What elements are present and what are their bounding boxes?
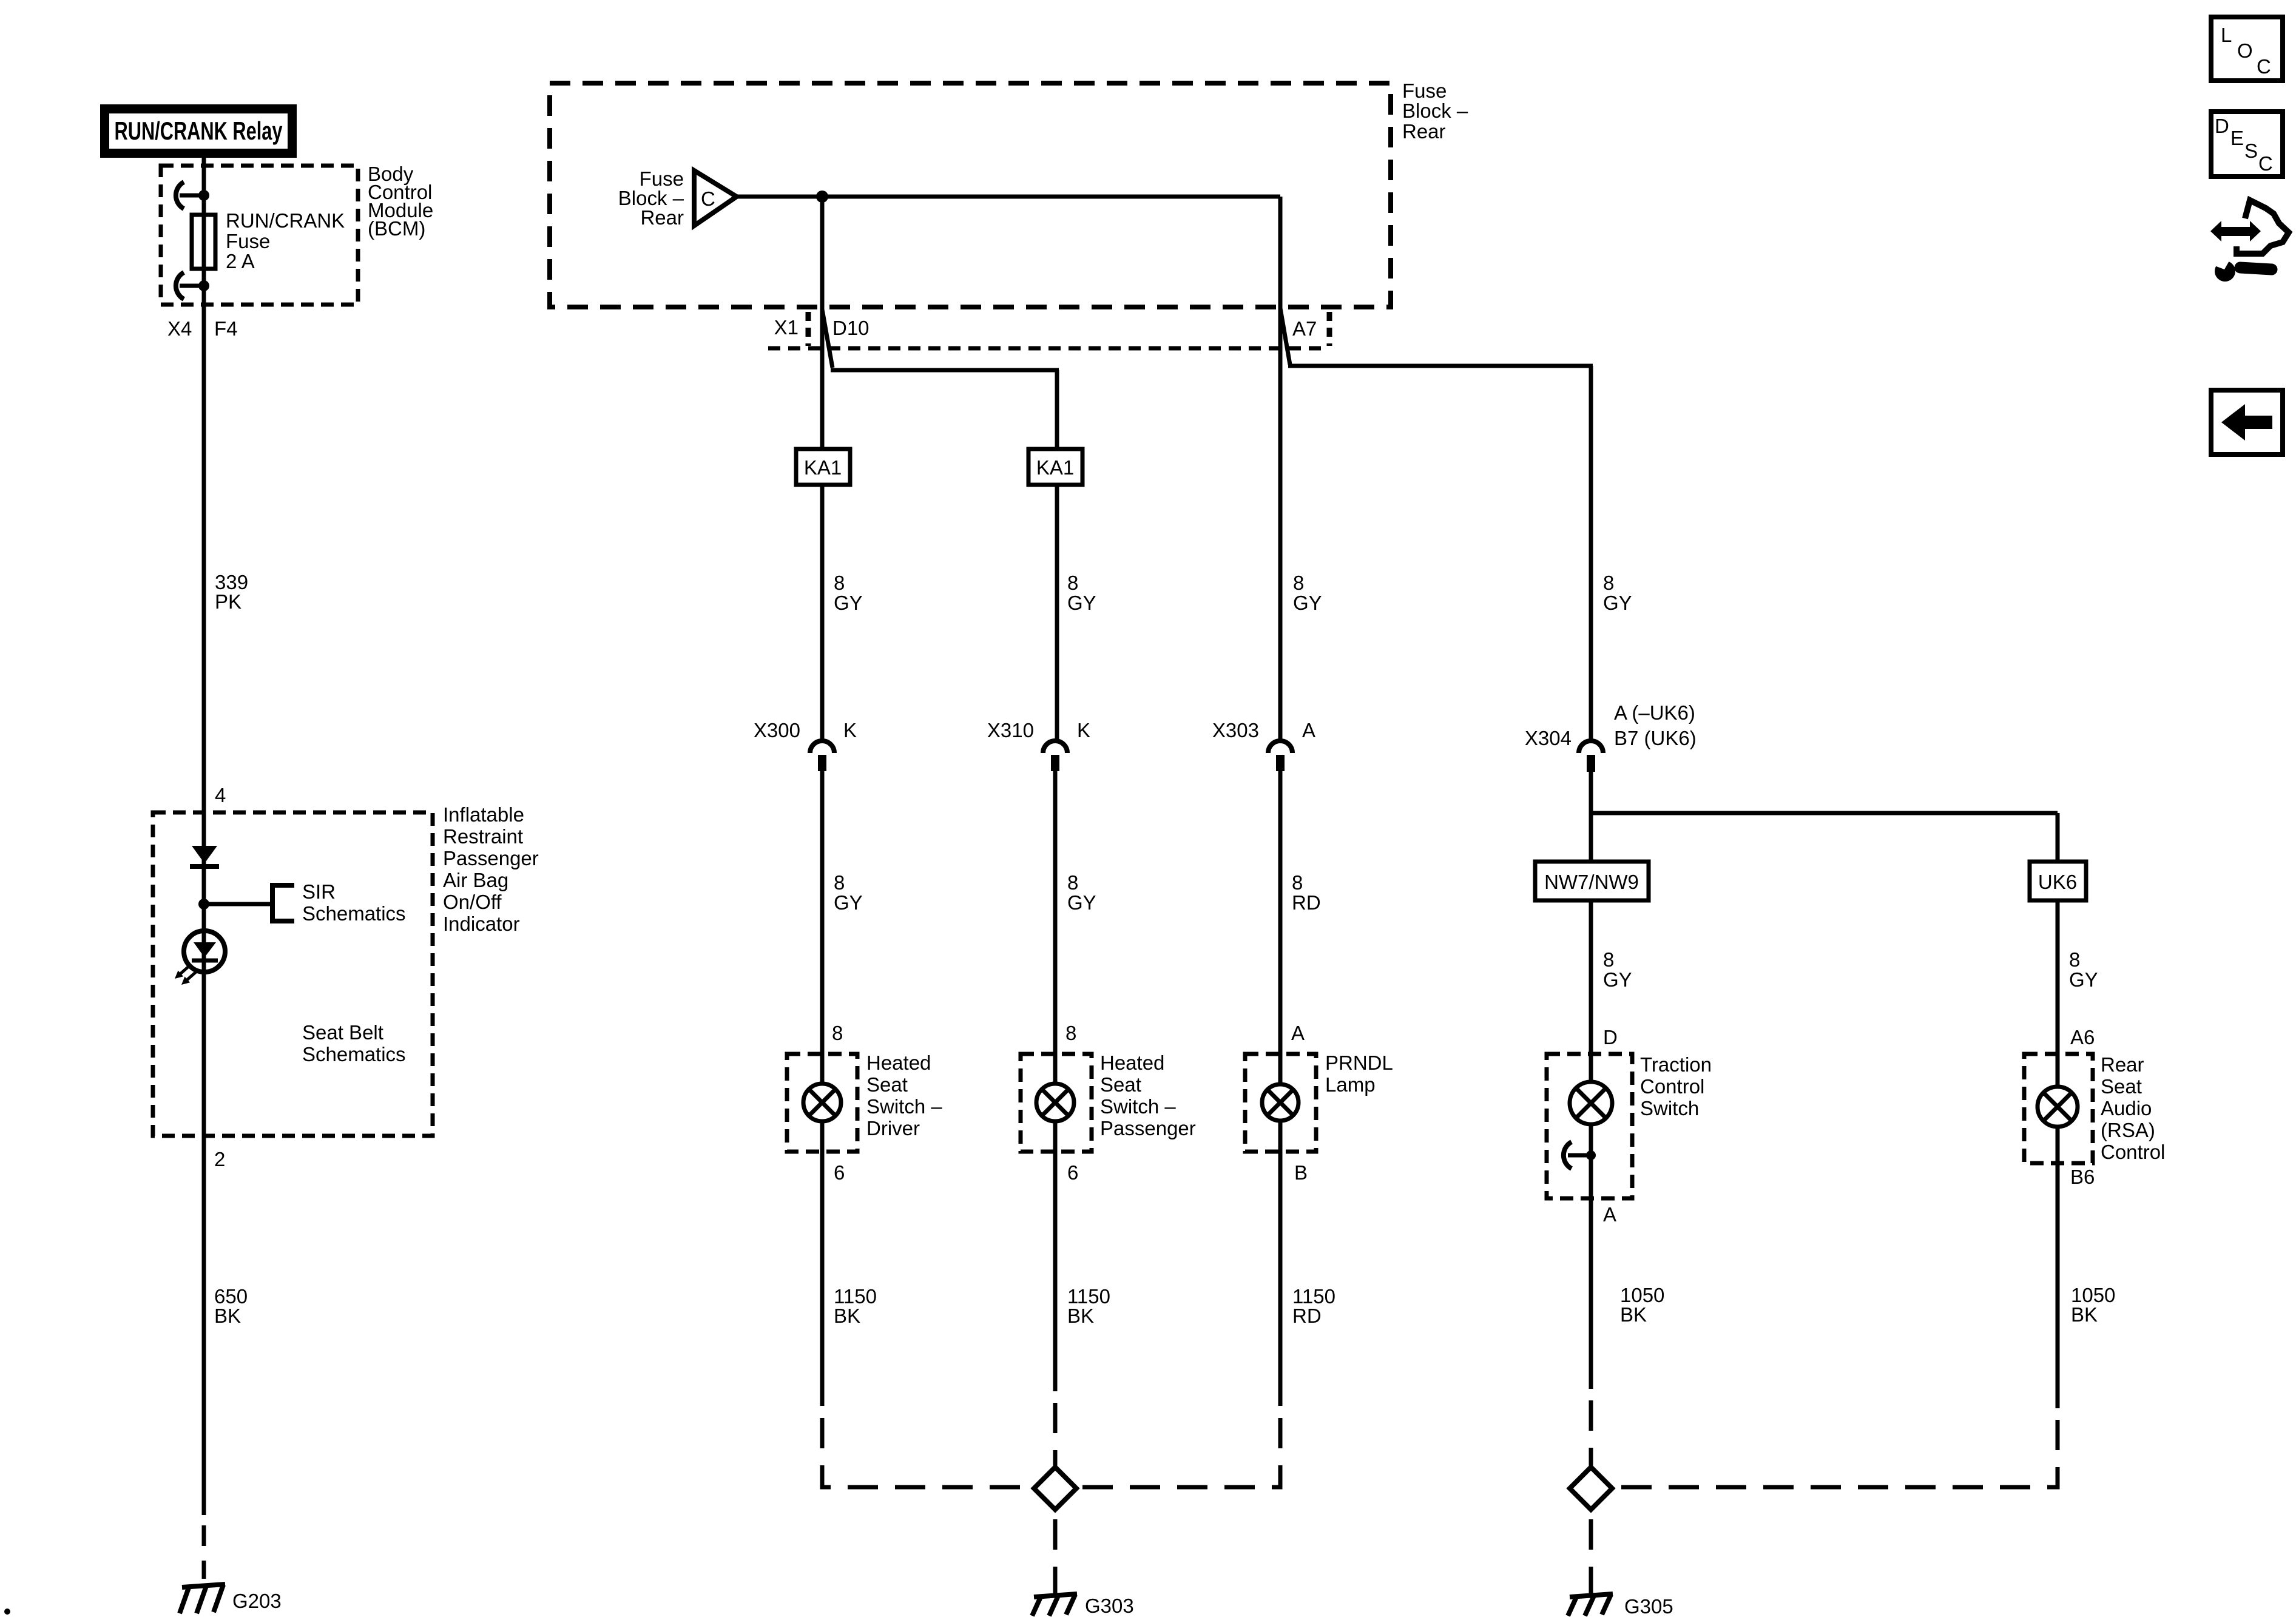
svg-text:PRNDL: PRNDL bbox=[1325, 1052, 1393, 1074]
svg-text:BK: BK bbox=[1620, 1303, 1647, 1326]
wire branch5 down to UK6 box bbox=[2056, 813, 2060, 862]
wire label 1150 RD branch3 bbox=[1292, 1285, 1335, 1327]
svg-text:X304: X304 bbox=[1525, 727, 1572, 749]
wire label 339 PK bbox=[215, 571, 248, 613]
svg-text:Seat: Seat bbox=[2101, 1075, 2142, 1098]
wire label 650 BK bbox=[214, 1285, 248, 1327]
svg-text:GY: GY bbox=[1067, 592, 1096, 614]
block UK6 bbox=[2030, 862, 2086, 900]
module SIR dashed box Inflatable Restraint bbox=[153, 812, 433, 1136]
connector bracket SIR Schematics bbox=[272, 883, 294, 923]
svg-text:On/Off: On/Off bbox=[443, 891, 502, 913]
svg-text:X4: X4 bbox=[167, 317, 192, 340]
svg-text:PK: PK bbox=[215, 590, 241, 613]
wire label 8 GY branch1 lower bbox=[834, 871, 863, 914]
svg-text:A: A bbox=[1291, 1022, 1305, 1044]
svg-text:Switch: Switch bbox=[1640, 1097, 1699, 1119]
lamp DS5 traction bbox=[1570, 1082, 1612, 1124]
svg-text:Traction: Traction bbox=[1640, 1053, 1712, 1076]
connector X310 K bbox=[987, 719, 1090, 771]
icon back arrow box bbox=[2211, 390, 2283, 454]
wire branch3 lamp to splice bbox=[1278, 1121, 1283, 1406]
svg-text:Rear: Rear bbox=[2101, 1053, 2144, 1076]
connector strip X1 row bbox=[768, 312, 1329, 348]
wire label 1150 BK branch1 bbox=[834, 1285, 877, 1327]
wire A7 branch horizontal bbox=[1288, 364, 1593, 368]
svg-text:Restraint: Restraint bbox=[443, 825, 523, 848]
node junction dot lower bbox=[198, 280, 209, 291]
wire label 8 GY branch4 lower bbox=[1603, 948, 1632, 991]
wire branch1 KA1 to connector bbox=[820, 485, 825, 740]
icon connector wrench bbox=[2210, 200, 2289, 282]
switch contact S1 upper BCM contact bbox=[176, 182, 204, 209]
diode D1 bbox=[190, 846, 219, 866]
svg-text:Rear: Rear bbox=[640, 206, 684, 229]
block NW7/NW9 bbox=[1535, 862, 1649, 900]
svg-text:G305: G305 bbox=[1624, 1595, 1673, 1617]
svg-text:6: 6 bbox=[834, 1161, 845, 1184]
label Heated Seat Switch Driver bbox=[866, 1052, 942, 1139]
svg-text:Rear: Rear bbox=[1402, 120, 1446, 143]
wire branch5 lamp down bbox=[2056, 1127, 2060, 1408]
wire branch5 UK6 box to lamp bbox=[2056, 900, 2060, 1087]
svg-text:O: O bbox=[2237, 39, 2253, 62]
svg-text:8: 8 bbox=[834, 871, 845, 894]
wire branch3 connector to lamp bbox=[1278, 771, 1283, 1084]
svg-text:GY: GY bbox=[1603, 968, 1632, 991]
ground G303 bbox=[1032, 1585, 1077, 1616]
svg-text:Fuse: Fuse bbox=[226, 230, 270, 252]
svg-text:X310: X310 bbox=[987, 719, 1034, 741]
wire dashed diamond to G305 bbox=[1589, 1519, 1593, 1585]
svg-text:GY: GY bbox=[1067, 891, 1096, 914]
wire branch4 X304 to NW box bbox=[1589, 771, 1593, 862]
wire SIR branch bbox=[204, 902, 272, 906]
svg-text:C: C bbox=[701, 187, 715, 210]
svg-text:RUN/CRANK: RUN/CRANK bbox=[226, 209, 345, 232]
wire dashed diamond to G303 bbox=[1053, 1519, 1058, 1585]
wire label 8 GY branch2 lower bbox=[1067, 871, 1096, 914]
svg-text:GY: GY bbox=[834, 891, 863, 914]
svg-text:8: 8 bbox=[1603, 948, 1614, 971]
svg-text:Block –: Block – bbox=[1402, 100, 1468, 122]
wire dashed branch3 to splice bbox=[1078, 1418, 1280, 1487]
svg-text:Heated: Heated bbox=[866, 1052, 931, 1074]
label Inflatable Restraint Passenger Air Bag On/Off Indicator bbox=[443, 803, 539, 935]
svg-text:Switch –: Switch – bbox=[1100, 1095, 1176, 1118]
svg-text:Audio: Audio bbox=[2101, 1097, 2152, 1119]
wire D10 branch horizontal bbox=[831, 368, 1059, 373]
wire branch2 upper bbox=[1055, 370, 1059, 449]
wire dashed branch2 to splice bbox=[1053, 1403, 1058, 1467]
ground G203 bbox=[180, 1584, 225, 1613]
switch contact S2 lower BCM contact bbox=[176, 272, 204, 299]
svg-text:Schematics: Schematics bbox=[302, 1043, 406, 1065]
wire branch4 inside box bbox=[1589, 1124, 1593, 1389]
wire dashed branch5 to splice bbox=[1615, 1420, 2058, 1487]
svg-text:Control: Control bbox=[1640, 1075, 1704, 1098]
svg-text:A (–UK6): A (–UK6) bbox=[1614, 701, 1695, 724]
wire UK6 branch horizontal bbox=[1591, 811, 2058, 815]
label Rear Seat Audio (RSA) Control bbox=[2101, 1053, 2165, 1163]
block KA1 first bbox=[796, 449, 850, 485]
wire branch2 KA1 to connector bbox=[1055, 485, 1059, 740]
wire branch4 upper bbox=[1589, 366, 1593, 740]
svg-text:L: L bbox=[2221, 24, 2232, 46]
svg-text:8: 8 bbox=[1065, 1022, 1076, 1044]
svg-text:Lamp: Lamp bbox=[1325, 1073, 1376, 1096]
svg-text:8: 8 bbox=[1603, 572, 1614, 594]
wire label 8 GY branch1 bbox=[834, 572, 863, 614]
label RUN/CRANK Fuse 2 A bbox=[226, 209, 345, 272]
wire branch3 upper bbox=[1278, 197, 1283, 740]
wire label 8 GY branch3 bbox=[1293, 572, 1322, 614]
svg-text:X300: X300 bbox=[754, 719, 800, 741]
svg-text:Seat: Seat bbox=[866, 1073, 908, 1096]
svg-text:A: A bbox=[1603, 1203, 1616, 1226]
lamp box rear seat audio bbox=[2024, 1054, 2093, 1163]
svg-text:Driver: Driver bbox=[866, 1117, 920, 1139]
wire label 1050 BK branch5 bbox=[2071, 1284, 2115, 1326]
lamp DS2 driver bbox=[803, 1084, 841, 1121]
svg-text:D10: D10 bbox=[832, 317, 869, 339]
svg-text:RD: RD bbox=[1292, 891, 1321, 914]
wire D10 jog slant bbox=[822, 309, 832, 368]
svg-text:8: 8 bbox=[1293, 572, 1304, 594]
svg-text:G303: G303 bbox=[1085, 1595, 1134, 1617]
lamp DS3 passenger bbox=[1036, 1084, 1074, 1121]
svg-text:BK: BK bbox=[834, 1305, 860, 1327]
lamp DS4 PRNDL bbox=[1262, 1084, 1298, 1121]
splice S303 diamond bbox=[1034, 1467, 1076, 1510]
wire C feed horizontal bbox=[738, 195, 1280, 199]
svg-text:D: D bbox=[1603, 1026, 1618, 1048]
wire label 8 GY branch2 bbox=[1067, 572, 1096, 614]
node SIR branch junction dot bbox=[198, 899, 209, 910]
wire label 8 GY branch4 bbox=[1603, 572, 1632, 614]
svg-text:8: 8 bbox=[834, 572, 845, 594]
svg-text:GY: GY bbox=[834, 592, 863, 614]
wire label 8 RD branch3 lower bbox=[1292, 871, 1321, 914]
wire A7 jog slant bbox=[1280, 308, 1290, 365]
svg-text:BK: BK bbox=[214, 1305, 241, 1327]
svg-text:6: 6 bbox=[1067, 1161, 1078, 1184]
svg-text:Air Bag: Air Bag bbox=[443, 869, 508, 891]
svg-text:NW7/NW9: NW7/NW9 bbox=[1544, 871, 1639, 893]
module U1 Body Control Module (BCM) dashed box bbox=[161, 166, 358, 305]
svg-text:BK: BK bbox=[2071, 1303, 2098, 1326]
svg-text:Passenger: Passenger bbox=[1100, 1117, 1196, 1139]
svg-text:A7: A7 bbox=[1292, 317, 1317, 340]
svg-text:RD: RD bbox=[1292, 1305, 1322, 1327]
wire left column from relay to ground bbox=[202, 158, 206, 1515]
label Seat Belt Schematics bbox=[302, 1021, 406, 1065]
svg-text:8: 8 bbox=[1292, 871, 1303, 894]
svg-text:D: D bbox=[2215, 115, 2229, 137]
svg-text:Seat Belt: Seat Belt bbox=[302, 1021, 383, 1044]
wire branch4 NW box to lamp bbox=[1589, 900, 1593, 1082]
svg-text:UK6: UK6 bbox=[2038, 871, 2077, 893]
label Traction Control Switch bbox=[1640, 1053, 1712, 1119]
svg-text:8: 8 bbox=[2069, 948, 2080, 971]
svg-text:Passenger: Passenger bbox=[443, 847, 539, 869]
label Body Control Module (BCM) bbox=[368, 163, 433, 240]
lamp DS6 RSA bbox=[2038, 1087, 2078, 1127]
svg-text:Schematics: Schematics bbox=[302, 902, 406, 925]
svg-text:B7 (UK6): B7 (UK6) bbox=[1614, 727, 1697, 749]
wire label 1050 BK branch4 bbox=[1620, 1284, 1664, 1326]
svg-text:GY: GY bbox=[1293, 592, 1322, 614]
svg-text:GY: GY bbox=[2069, 968, 2098, 991]
connector X300 K bbox=[754, 719, 857, 771]
svg-text:Heated: Heated bbox=[1100, 1052, 1164, 1074]
wire branch1 connector to lamp bbox=[820, 771, 825, 1084]
svg-text:C: C bbox=[2257, 55, 2271, 78]
label Fuse Block - Rear (inner) bbox=[618, 167, 684, 229]
wire branch1 upper bbox=[820, 197, 825, 449]
svg-text:SIR: SIR bbox=[302, 880, 336, 903]
svg-text:KA1: KA1 bbox=[1036, 456, 1074, 479]
svg-text:E: E bbox=[2230, 127, 2244, 149]
svg-text:B6: B6 bbox=[2070, 1166, 2095, 1188]
LED DS1 seat belt indicator bbox=[175, 931, 225, 985]
svg-text:Switch –: Switch – bbox=[866, 1095, 942, 1118]
svg-text:KA1: KA1 bbox=[804, 456, 842, 479]
wire dashed branch1 to splice bbox=[822, 1418, 1032, 1487]
splice S305 diamond bbox=[1570, 1467, 1612, 1510]
svg-text:(RSA): (RSA) bbox=[2101, 1119, 2155, 1141]
lamp box heated seat switch passenger bbox=[1021, 1054, 1092, 1152]
wire label 1150 BK branch2 bbox=[1067, 1285, 1110, 1327]
svg-text:4: 4 bbox=[215, 784, 226, 806]
svg-text:S: S bbox=[2244, 140, 2258, 162]
svg-text:X303: X303 bbox=[1212, 719, 1259, 741]
lamp box heated seat switch driver bbox=[787, 1054, 857, 1152]
svg-text:F4: F4 bbox=[214, 317, 238, 340]
svg-text:8: 8 bbox=[1067, 572, 1078, 594]
icon DESC box bbox=[2211, 112, 2283, 177]
label Heated Seat Switch Passenger bbox=[1100, 1052, 1196, 1139]
ground G305 bbox=[1568, 1585, 1613, 1616]
wire branch2 connector to lamp bbox=[1053, 771, 1058, 1084]
block KA1 second bbox=[1028, 449, 1082, 485]
wire dashed to G203 bbox=[202, 1525, 206, 1579]
wire label 8 GY branch5 bbox=[2069, 948, 2098, 991]
relay K1 title box RUN/CRANK Relay bbox=[100, 104, 297, 158]
module fuse block rear dashed box bbox=[550, 83, 1391, 307]
svg-text:X1: X1 bbox=[774, 316, 799, 339]
svg-text:Fuse: Fuse bbox=[1402, 79, 1447, 102]
svg-text:GY: GY bbox=[1603, 592, 1632, 614]
wire branch1 lamp to splice bbox=[820, 1121, 825, 1406]
icon LOC box bbox=[2211, 17, 2283, 81]
svg-text:Control: Control bbox=[2101, 1141, 2165, 1163]
svg-text:8: 8 bbox=[832, 1022, 843, 1044]
label Fuse Block - Rear (outer) bbox=[1402, 79, 1468, 143]
svg-text:K: K bbox=[843, 719, 857, 741]
svg-text:RUN/CRANK Relay: RUN/CRANK Relay bbox=[115, 116, 283, 145]
svg-text:8: 8 bbox=[1067, 871, 1078, 894]
svg-text:B: B bbox=[1294, 1161, 1308, 1184]
label SIR Schematics bbox=[302, 880, 406, 925]
svg-text:A6: A6 bbox=[2070, 1026, 2095, 1048]
svg-text:(BCM): (BCM) bbox=[368, 217, 425, 240]
lamp box traction control switch bbox=[1547, 1054, 1632, 1198]
svg-text:Indicator: Indicator bbox=[443, 913, 520, 935]
svg-text:Inflatable: Inflatable bbox=[443, 803, 524, 826]
svg-text:2: 2 bbox=[214, 1148, 225, 1170]
wire branch2 lamp to splice bbox=[1053, 1121, 1058, 1391]
svg-text:C: C bbox=[2258, 152, 2273, 175]
svg-text:A: A bbox=[1302, 719, 1315, 741]
decorative-dot bbox=[4, 1609, 10, 1615]
switch contact traction bbox=[1564, 1142, 1596, 1169]
label PRNDL Lamp bbox=[1325, 1052, 1393, 1096]
connector triangle C Fuse Block Rear bbox=[694, 170, 737, 226]
wire dashed branch4 to splice bbox=[1589, 1400, 1593, 1467]
connector X304 bbox=[1525, 701, 1697, 772]
svg-text:G203: G203 bbox=[232, 1590, 282, 1612]
svg-text:Seat: Seat bbox=[1100, 1073, 1141, 1096]
fuse F4 RUN/CRANK Fuse 2A bbox=[192, 215, 215, 269]
connector X303 A bbox=[1212, 719, 1315, 771]
node junction dot upper bbox=[198, 190, 209, 201]
svg-text:K: K bbox=[1077, 719, 1090, 741]
node junction dot on feed bbox=[816, 191, 828, 203]
lamp box PRNDL bbox=[1245, 1054, 1316, 1152]
svg-text:2 A: 2 A bbox=[226, 250, 255, 272]
svg-text:BK: BK bbox=[1067, 1305, 1094, 1327]
